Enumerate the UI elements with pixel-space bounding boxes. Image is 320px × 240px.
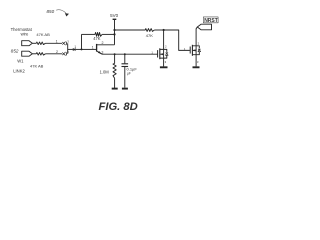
svg-text:2: 2 <box>165 44 167 48</box>
label 852 <box>11 48 19 53</box>
pin digits <box>151 44 167 64</box>
base wire <box>82 48 97 50</box>
drain wire up to NRST <box>196 27 197 46</box>
pin digits <box>184 41 200 64</box>
svg-text:852: 852 <box>11 48 19 53</box>
svg-text:2: 2 <box>56 50 58 54</box>
ground <box>193 66 200 68</box>
svg-text:47K: 47K <box>146 33 153 38</box>
collector wire <box>97 44 115 46</box>
ground <box>160 66 168 68</box>
pin symbol row2 <box>62 53 65 56</box>
svg-text:3: 3 <box>197 60 199 64</box>
resistor R3 47K (base to 5V0) <box>95 33 102 37</box>
pin number 1 <box>56 40 58 44</box>
pin number 2 <box>56 50 58 54</box>
svg-text:1: 1 <box>92 46 94 50</box>
wire to M1 drain node <box>154 29 163 31</box>
drain wire <box>163 30 165 49</box>
body diode <box>196 46 199 55</box>
gate bar <box>189 47 191 54</box>
svg-text:wire: wire <box>21 31 29 36</box>
wire <box>32 42 36 44</box>
junction dot (0.1uF) <box>124 53 126 55</box>
wire up from base node <box>81 34 83 49</box>
svg-text:3: 3 <box>67 40 69 44</box>
connector P1 (thermostat wire 1) <box>22 41 33 46</box>
arrow <box>193 49 196 51</box>
source wire <box>195 55 197 67</box>
junction dot <box>163 29 165 31</box>
svg-text:47K AB: 47K AB <box>36 32 50 37</box>
net flag NRST <box>197 24 211 30</box>
resistor R5 47K (pull-up) <box>115 29 155 32</box>
wire to pin 2 <box>45 53 62 55</box>
source wire <box>163 58 165 66</box>
body diode <box>164 49 167 58</box>
label Thermostat wire <box>11 27 33 36</box>
stubs <box>192 46 196 55</box>
svg-text:1.0M: 1.0M <box>100 70 110 75</box>
tie wire joining rows <box>67 43 69 54</box>
ground <box>122 88 128 90</box>
resistor R4 1.0M <box>113 54 116 89</box>
gate bar <box>157 50 159 57</box>
emitter wire with arrow <box>97 51 102 54</box>
junction dot (pull-up branch) <box>113 29 115 31</box>
svg-text:1: 1 <box>56 40 58 44</box>
value 47K AB (R2) <box>30 63 44 68</box>
svg-text:µF: µF <box>127 71 131 75</box>
svg-text:850: 850 <box>47 9 55 14</box>
stubs <box>160 49 164 58</box>
svg-text:3: 3 <box>101 50 103 54</box>
svg-text:2: 2 <box>198 41 200 45</box>
wire <box>32 53 36 55</box>
resistor R1 47K AB <box>36 42 45 45</box>
pin symbol row1 <box>62 42 65 45</box>
svg-text:LINK2: LINK2 <box>13 69 25 74</box>
channel bar <box>159 48 161 59</box>
value 47K AB (R1) <box>36 32 50 37</box>
svg-text:W1: W1 <box>17 59 24 64</box>
junction dot <box>113 33 115 35</box>
svg-text:47K AB: 47K AB <box>30 63 44 68</box>
wire <box>82 33 96 35</box>
transistor Q1 <box>96 44 98 52</box>
wire to base node <box>68 48 82 50</box>
emitter node wire <box>102 53 158 55</box>
connector P2 (thermostat wire 2) <box>22 51 33 56</box>
lead arrow for 850 <box>56 10 66 13</box>
value LINK2 <box>13 69 25 74</box>
power 5V0 <box>110 13 119 18</box>
ground <box>112 88 118 90</box>
link W1 symbol <box>73 48 76 51</box>
svg-text:5V0: 5V0 <box>110 13 119 18</box>
arrow <box>160 53 163 55</box>
node base junction <box>81 48 83 50</box>
wire to pin 1 <box>45 42 62 44</box>
svg-text:NRST: NRST <box>204 18 218 24</box>
designator W1 <box>17 59 24 64</box>
label 850 <box>47 9 55 14</box>
junction dot (1.0M) <box>114 53 116 55</box>
svg-text:2: 2 <box>102 41 104 45</box>
resistor R2 47K AB <box>36 53 45 56</box>
svg-text:47K: 47K <box>93 36 101 41</box>
svg-text:FIG. 8D: FIG. 8D <box>99 101 138 113</box>
capacitor C1 0.1uF <box>124 54 126 63</box>
channel bar <box>191 45 193 56</box>
wire to 5V0 rail <box>102 33 114 35</box>
svg-text:1: 1 <box>74 45 76 49</box>
figure caption <box>99 101 138 113</box>
svg-text:3: 3 <box>165 60 167 64</box>
wire over to M2 gate <box>164 30 190 50</box>
